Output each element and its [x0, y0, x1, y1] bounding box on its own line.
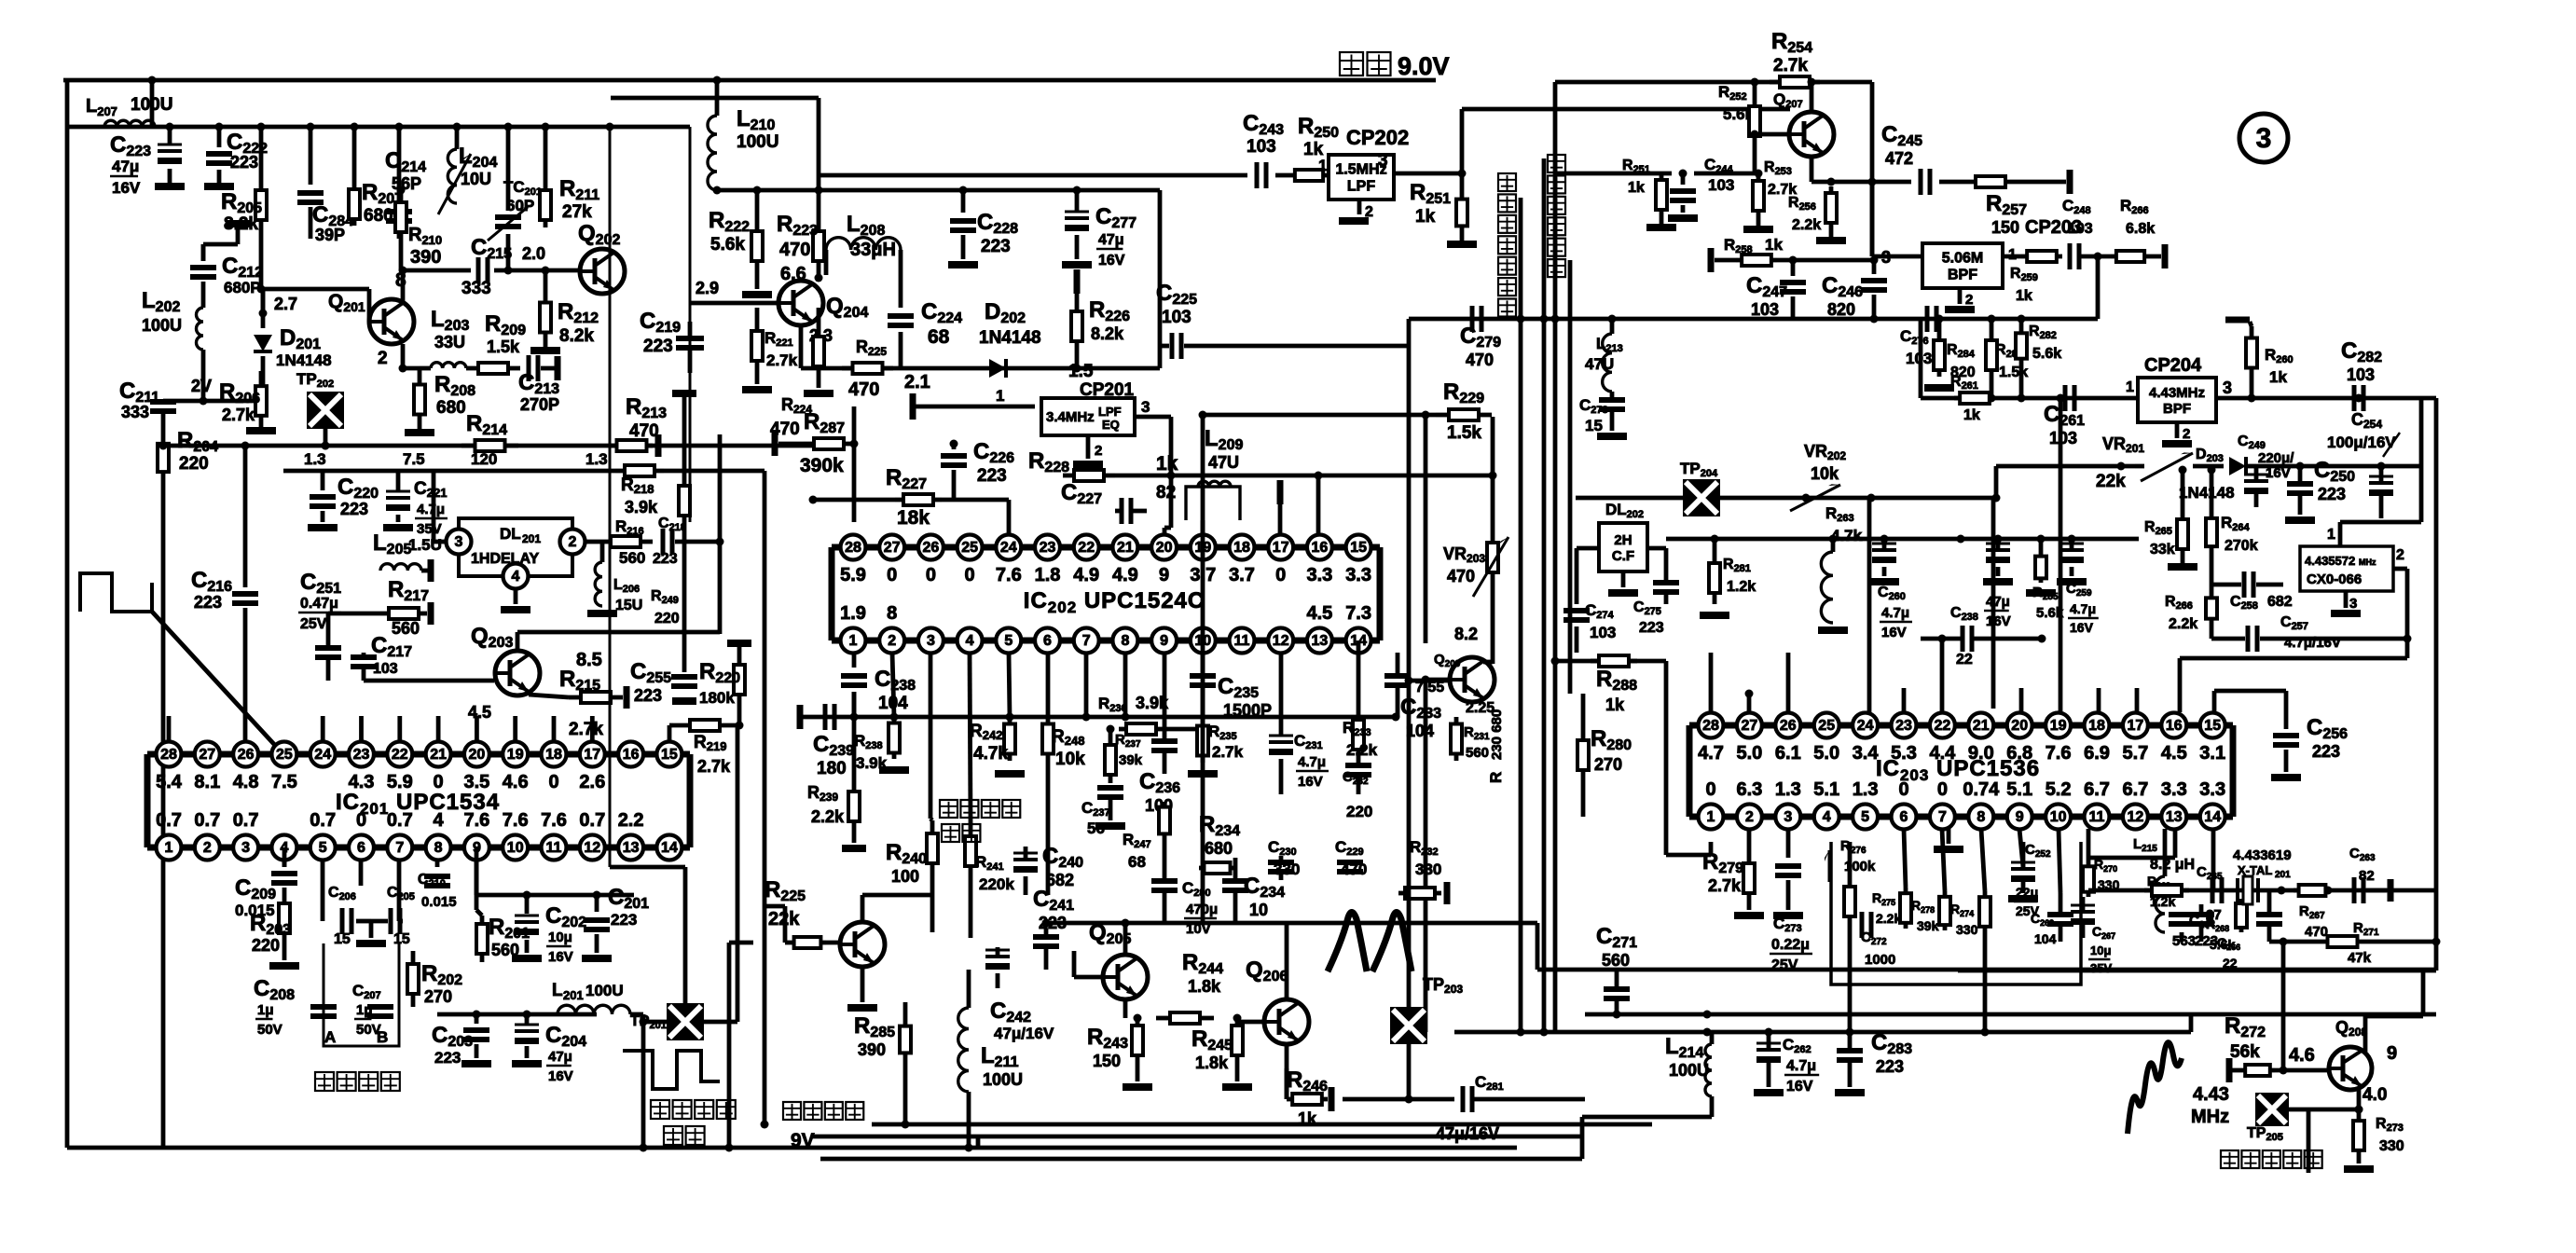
DL202 box — [1599, 501, 1647, 571]
resistor R245 — [1192, 1014, 1252, 1092]
svg-text:4.7μ: 4.7μ — [2070, 601, 2096, 616]
svg-text:6.9: 6.9 — [2084, 743, 2110, 764]
transistor Q207 — [1773, 90, 1834, 157]
capacitor C279 — [1460, 306, 1501, 369]
ground C205 C206 — [356, 921, 386, 947]
svg-text:100U: 100U — [983, 1070, 1023, 1089]
wire c254 line — [2256, 398, 2421, 471]
svg-text:5.06M: 5.06M — [1942, 251, 1983, 267]
svg-text:26: 26 — [1780, 718, 1797, 734]
capacitor C240 — [1013, 844, 1083, 895]
svg-text:1.5k: 1.5k — [1999, 365, 2028, 380]
svg-text:4.7k: 4.7k — [973, 744, 1008, 764]
svg-text:18: 18 — [2088, 718, 2105, 734]
svg-text:470: 470 — [1466, 351, 1494, 369]
resistor R241 — [965, 653, 1014, 938]
wire q210 em — [847, 967, 877, 1012]
svg-text:10k: 10k — [1055, 750, 1085, 769]
wire cp202 pin2 gnd — [1339, 200, 1373, 225]
VR201 — [2096, 434, 2224, 491]
svg-text:0: 0 — [887, 565, 897, 585]
wire l201 right — [630, 1014, 648, 1152]
svg-text:470: 470 — [848, 379, 879, 400]
inductor L211 — [958, 970, 1023, 1152]
resistor R256 — [1788, 186, 1846, 244]
testpoint TP205 — [2247, 1093, 2289, 1143]
wire q204 emitter — [801, 325, 833, 368]
svg-text:3: 3 — [2349, 596, 2357, 612]
wire dl201 pin3 — [434, 471, 448, 542]
wire r225 feed — [765, 906, 789, 943]
svg-text:333: 333 — [121, 403, 149, 421]
svg-text:4.435572: 4.435572 — [2305, 554, 2355, 568]
svg-text:28: 28 — [845, 540, 861, 556]
svg-text:5.9: 5.9 — [840, 565, 866, 585]
svg-text:1.9: 1.9 — [840, 603, 866, 624]
svg-text:10μ: 10μ — [548, 929, 572, 945]
svg-text:1N4148: 1N4148 — [276, 351, 332, 369]
svg-text:560: 560 — [392, 619, 420, 638]
wire top 9V rail — [63, 78, 1436, 83]
svg-text:LPF: LPF — [1347, 179, 1375, 195]
resistor R213 — [611, 394, 667, 457]
label 磁头开关信号 — [651, 1100, 736, 1145]
svg-text:CP204: CP204 — [2144, 355, 2202, 376]
svg-text:11: 11 — [546, 840, 562, 856]
capacitor C225 — [1156, 281, 1409, 359]
svg-text:3: 3 — [1784, 809, 1792, 825]
svg-text:5.7: 5.7 — [2122, 743, 2148, 764]
capacitor C243 — [1243, 111, 1284, 188]
capacitor C236 — [1082, 653, 1181, 815]
svg-text:0.015: 0.015 — [421, 894, 457, 910]
svg-text:100U: 100U — [1669, 1061, 1709, 1080]
svg-text:1.3: 1.3 — [1775, 779, 1801, 800]
CP202 box — [1329, 126, 1409, 200]
svg-text:10: 10 — [1249, 901, 1268, 919]
svg-text:22: 22 — [2223, 956, 2238, 971]
svg-text:39P: 39P — [315, 226, 345, 244]
label 7.5 — [403, 450, 425, 468]
svg-text:8: 8 — [1977, 809, 1985, 825]
svg-text:68: 68 — [1128, 853, 1146, 871]
wire q204 base — [690, 279, 778, 303]
svg-text:28: 28 — [1702, 718, 1719, 734]
svg-text:104: 104 — [2034, 931, 2057, 946]
wire c243-r250 — [1275, 173, 1289, 178]
svg-text:1.2k: 1.2k — [1727, 579, 1756, 595]
svg-text:82: 82 — [2359, 868, 2375, 884]
svg-text:13: 13 — [2166, 809, 2183, 825]
svg-text:390: 390 — [410, 247, 441, 268]
svg-text:MHz: MHz — [2359, 558, 2376, 567]
svg-text:223: 223 — [611, 911, 637, 929]
svg-text:180k: 180k — [699, 689, 735, 707]
resistor R249 — [651, 390, 696, 672]
resistor R206 — [219, 371, 276, 434]
svg-text:16V: 16V — [548, 949, 573, 965]
capacitor C215 — [461, 235, 545, 298]
wire r265 net — [2179, 466, 2187, 514]
capacitor C283 — [1835, 1030, 1912, 1096]
wire d201 top — [259, 289, 268, 318]
resistor R221 — [742, 308, 798, 393]
capacitor C266 — [2188, 904, 2240, 971]
svg-text:7.6: 7.6 — [541, 810, 567, 831]
svg-text:2.2k: 2.2k — [2169, 616, 2197, 632]
svg-text:330: 330 — [1415, 861, 1441, 878]
svg-text:7.6: 7.6 — [2046, 743, 2072, 764]
svg-text:2.7: 2.7 — [274, 295, 297, 313]
svg-text:5.0: 5.0 — [1736, 743, 1762, 764]
svg-text:18: 18 — [1233, 540, 1250, 556]
capacitor C242 — [985, 947, 1054, 1042]
wire q207 emitter — [1811, 157, 1911, 186]
svg-text:2.6: 2.6 — [579, 772, 605, 792]
svg-text:56P: 56P — [392, 174, 421, 193]
wire right border — [1958, 398, 2436, 971]
capacitor C267 — [2071, 897, 2115, 975]
resistor R225 — [765, 877, 842, 948]
svg-text:1k: 1k — [2016, 288, 2032, 304]
svg-text:201: 201 — [522, 532, 541, 545]
svg-text:6.3: 6.3 — [1736, 779, 1762, 800]
resistor R248 — [1042, 653, 1085, 895]
CP201 box — [1041, 380, 1135, 435]
capacitor C251 — [298, 570, 341, 681]
svg-text:13: 13 — [623, 840, 640, 856]
svg-text:10: 10 — [2050, 809, 2067, 825]
svg-text:6.8k: 6.8k — [2126, 221, 2155, 237]
box under ic203 — [1831, 842, 2081, 984]
svg-text:X-TAL: X-TAL — [2238, 863, 2272, 877]
svg-text:9: 9 — [2387, 1043, 2397, 1064]
inductor L215 — [2133, 829, 2195, 932]
transistor Q206 — [1246, 957, 1309, 1044]
svg-text:CP201: CP201 — [1080, 380, 1135, 400]
capacitor C257 — [2211, 614, 2412, 652]
resistor R287 — [772, 409, 859, 476]
svg-text:26: 26 — [923, 540, 940, 556]
svg-text:8.2k: 8.2k — [1091, 324, 1124, 343]
svg-text:4.43: 4.43 — [2193, 1084, 2229, 1105]
capacitor C203 — [432, 1014, 491, 1067]
capacitor C263 — [2349, 846, 2394, 903]
wire q205 em — [1125, 999, 1142, 1023]
resistor R222 — [709, 190, 772, 298]
svg-text:220: 220 — [252, 936, 280, 955]
label 到伺服电路 — [2221, 1150, 2322, 1168]
svg-text:223: 223 — [230, 153, 258, 172]
capacitor C230 — [1268, 838, 1300, 880]
resistor R253 — [1743, 159, 1797, 233]
resistor R271 — [2269, 920, 2441, 966]
capacitor C264 — [2189, 890, 2282, 949]
label cp203 pins — [1881, 247, 2017, 267]
svg-text:5.6k: 5.6k — [2032, 346, 2061, 362]
resistor R278 — [1911, 891, 1950, 933]
svg-text:9: 9 — [2016, 809, 2024, 825]
capacitor C218 — [653, 516, 724, 567]
svg-text:230 680: 230 680 — [1489, 709, 1505, 760]
wire r2 net — [1568, 260, 1573, 694]
svg-text:682: 682 — [1046, 871, 1074, 889]
svg-text:C.F: C.F — [1612, 548, 1634, 564]
svg-text:223: 223 — [1876, 1057, 1904, 1076]
svg-text:9V: 9V — [791, 1130, 815, 1151]
svg-text:21: 21 — [430, 747, 447, 763]
resistor R270 — [2083, 829, 2120, 897]
svg-text:27: 27 — [199, 747, 215, 763]
svg-text:1k: 1k — [2269, 368, 2287, 386]
ground pin7 — [1934, 829, 1963, 853]
wire xtal line — [2088, 887, 2436, 895]
capacitor C273 — [1770, 829, 1812, 973]
svg-text:BPF: BPF — [2163, 401, 2191, 417]
wire q207 col — [1870, 82, 1875, 256]
svg-text:5.0: 5.0 — [1813, 743, 1839, 764]
svg-text:5: 5 — [319, 840, 327, 856]
capacitor C207 — [352, 982, 393, 1038]
wire dl202 left — [1577, 548, 1599, 604]
wire c277 node2 — [1074, 269, 1081, 300]
capacitor C226 — [941, 439, 1014, 500]
wire q210 col — [862, 895, 930, 922]
svg-text:103: 103 — [1590, 624, 1616, 641]
svg-text:24: 24 — [1857, 718, 1874, 734]
wire video out line — [1519, 198, 1523, 1032]
resistor R226 — [1071, 297, 1130, 368]
svg-text:270k: 270k — [2225, 538, 2258, 554]
wire q210 line — [725, 943, 754, 1152]
resistor R212 — [530, 267, 599, 355]
svg-text:10: 10 — [507, 840, 524, 856]
svg-text:4.5: 4.5 — [468, 703, 491, 722]
wire cp201 pin2 — [1073, 435, 1103, 468]
svg-text:28: 28 — [160, 747, 177, 763]
wire q208 net — [2280, 938, 2288, 1075]
svg-text:0: 0 — [1275, 565, 1286, 585]
svg-text:330: 330 — [2379, 1138, 2404, 1154]
svg-text:1k: 1k — [1963, 407, 1980, 423]
resistor R235 — [1188, 719, 1244, 778]
svg-text:560: 560 — [1602, 951, 1630, 970]
svg-text:15: 15 — [1350, 540, 1367, 556]
svg-text:4.5: 4.5 — [2161, 743, 2187, 764]
wire q207 top — [1808, 78, 1816, 113]
svg-text:2: 2 — [569, 534, 577, 550]
resistor R261 — [1950, 374, 1995, 423]
wire r201 rail — [476, 891, 634, 900]
resistor R279 — [1702, 829, 1764, 919]
capacitor C256 — [2271, 691, 2348, 781]
capacitor C219 — [640, 309, 704, 373]
svg-text:103: 103 — [2068, 221, 2093, 237]
svg-text:10k: 10k — [1811, 464, 1839, 483]
wire 709 line — [1556, 659, 1666, 664]
svg-text:2.2k: 2.2k — [1876, 911, 1901, 926]
wire r287 up — [852, 406, 857, 522]
resistor R238 — [854, 653, 909, 774]
svg-text:6: 6 — [1900, 809, 1908, 825]
op-amp IC201 UPC1534 — [147, 742, 690, 861]
svg-text:47μ/16V: 47μ/16V — [1436, 1124, 1499, 1143]
resistor R288 — [1591, 655, 1637, 714]
resistor R285b — [2026, 539, 2064, 621]
resistor R260 — [2225, 320, 2294, 398]
svg-text:47U: 47U — [1585, 355, 1614, 373]
svg-text:3: 3 — [1378, 151, 1388, 171]
wire cp203 in — [1872, 182, 1922, 256]
svg-text:1: 1 — [2126, 379, 2134, 395]
svg-text:103: 103 — [2049, 429, 2077, 447]
svg-text:39k: 39k — [1119, 752, 1143, 768]
svg-text:47μ: 47μ — [1098, 232, 1124, 248]
resistor R244 — [1156, 950, 1223, 1024]
svg-text:563: 563 — [2172, 933, 2196, 949]
svg-text:22: 22 — [1078, 540, 1095, 556]
svg-text:14: 14 — [2204, 809, 2221, 825]
svg-text:470: 470 — [1447, 567, 1475, 585]
svg-text:22: 22 — [392, 747, 408, 763]
capacitor C245 — [1881, 122, 1930, 195]
svg-text:1.5: 1.5 — [1068, 362, 1094, 381]
svg-text:4: 4 — [512, 569, 520, 585]
svg-text:2H: 2H — [1614, 532, 1632, 548]
svg-text:8: 8 — [887, 603, 897, 624]
wire r258 line — [1708, 236, 1873, 272]
capacitor C237 — [1081, 788, 1125, 837]
capacitor C229 — [1335, 838, 1367, 878]
capacitor C247 — [1746, 260, 1806, 319]
svg-text:1.8: 1.8 — [1035, 565, 1061, 585]
svg-text:DL: DL — [500, 525, 521, 543]
wire q201 emitter — [399, 344, 420, 373]
svg-text:120: 120 — [471, 450, 497, 468]
svg-text:390: 390 — [858, 1040, 886, 1059]
svg-text:680: 680 — [1205, 839, 1233, 858]
svg-text:9: 9 — [1159, 565, 1169, 585]
svg-text:180: 180 — [817, 759, 847, 778]
svg-text:0: 0 — [1705, 779, 1715, 800]
resistor R223 — [777, 190, 824, 282]
svg-text:50V: 50V — [257, 1022, 282, 1038]
label 静噪锁定电压 — [940, 800, 1020, 842]
capacitor C265 — [2197, 864, 2223, 923]
wire mid bottom lines — [811, 1124, 1652, 1159]
bar term cp201 — [910, 387, 1036, 420]
svg-text:1: 1 — [849, 633, 858, 649]
svg-text:25: 25 — [961, 540, 978, 556]
capacitor C210 — [418, 860, 457, 910]
svg-text:2.1: 2.1 — [904, 372, 930, 392]
svg-text:56k: 56k — [2230, 1042, 2260, 1062]
wire c212 node — [203, 220, 250, 261]
diode D203 — [2179, 447, 2256, 502]
svg-text:0.22μ: 0.22μ — [1771, 937, 1810, 953]
resistor R230 — [1487, 709, 1505, 783]
wire rf line — [1542, 158, 1547, 1032]
svg-text:2.7k: 2.7k — [1773, 56, 1808, 76]
capacitor C201 — [582, 885, 649, 962]
testpoint TP202 — [296, 370, 344, 429]
capacitor C208 — [254, 976, 337, 1038]
wire tp201 — [610, 867, 737, 1026]
svg-text:0.74: 0.74 — [1963, 779, 2000, 800]
transistor Q201 — [328, 291, 414, 344]
inductor L214 — [1582, 1032, 1712, 1159]
svg-text:5.1: 5.1 — [2006, 779, 2032, 800]
capacitor C212 — [190, 244, 263, 308]
wire tall rect2 — [689, 127, 692, 522]
svg-text:470: 470 — [779, 240, 810, 260]
svg-text:2: 2 — [378, 349, 388, 368]
svg-text:820: 820 — [1827, 300, 1855, 319]
wire cp204 out — [2216, 394, 2436, 403]
wire r205 to q201 base — [257, 227, 372, 322]
svg-text:472: 472 — [1885, 149, 1913, 168]
wire c203 rail — [437, 1011, 597, 1019]
capacitor C259 — [2057, 539, 2099, 635]
svg-text:8.2: 8.2 — [1454, 625, 1478, 643]
inductor L204 — [438, 127, 497, 214]
svg-text:2: 2 — [888, 633, 896, 649]
svg-text:4: 4 — [966, 633, 974, 649]
svg-text:3.4MHz: 3.4MHz — [1046, 409, 1095, 425]
svg-text:MHz: MHz — [2191, 1107, 2229, 1127]
wire 990 line — [1203, 415, 1537, 970]
wire q208 col — [2365, 970, 2423, 1052]
svg-text:17: 17 — [1273, 540, 1289, 556]
svg-text:4.7μ: 4.7μ — [1298, 754, 1326, 770]
svg-text:6.7: 6.7 — [2122, 779, 2148, 800]
wire ic201 left — [0, 0, 1, 1]
svg-text:11: 11 — [2089, 809, 2105, 825]
capacitor C232 — [1343, 757, 1372, 820]
DL201 pin2 — [560, 530, 585, 555]
resistor R233 — [1343, 640, 1378, 759]
resistor R263 — [1825, 498, 1869, 712]
capacitor C222 — [204, 127, 268, 190]
transistor Q203 — [471, 624, 540, 695]
resistor R208 — [414, 368, 475, 421]
svg-text:1.5k: 1.5k — [487, 337, 520, 356]
inductor L212 — [1818, 535, 1848, 635]
CP203 box — [1922, 217, 2082, 288]
capacitor C221 — [383, 471, 448, 537]
wire 510 line — [1171, 472, 1493, 535]
resistor R202 — [407, 951, 462, 1007]
svg-text:1: 1 — [996, 387, 1004, 405]
svg-text:4.7μ: 4.7μ — [1786, 1058, 1816, 1074]
svg-text:68: 68 — [928, 326, 950, 348]
svg-text:0: 0 — [965, 565, 975, 585]
svg-text:16: 16 — [1312, 540, 1329, 556]
label 1.3a — [304, 450, 326, 468]
svg-text:4.43MHz: 4.43MHz — [2149, 385, 2205, 401]
svg-text:103: 103 — [373, 661, 398, 677]
capacitor C261 — [2044, 385, 2085, 447]
svg-text:100μ/16V: 100μ/16V — [2327, 434, 2396, 451]
svg-text:223: 223 — [340, 500, 368, 518]
svg-text:14: 14 — [661, 840, 678, 856]
svg-text:10U: 10U — [461, 170, 491, 188]
svg-text:2V: 2V — [191, 377, 212, 395]
inductor L208 — [826, 212, 901, 308]
label 2V — [191, 377, 212, 395]
wire ic203 pin connects — [1711, 394, 2137, 713]
svg-text:223: 223 — [634, 686, 662, 705]
